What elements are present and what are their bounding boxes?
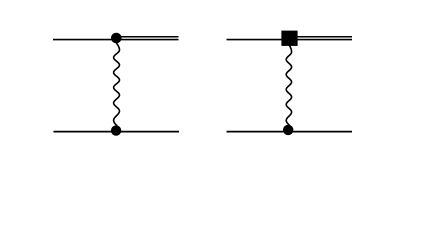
photon propagator: left diagram wavy line <box>114 43 120 126</box>
wire: right diagram, upper line of double (heavy-quark) line from vertex to right end <box>290 36 353 38</box>
wire: left diagram, top fermion line (single, continues as lower of double line) <box>53 39 179 41</box>
vertex dot: right diagram, bottom vertex (filled circle) <box>283 125 293 135</box>
vertex dot: left diagram, bottom vertex (filled circle) <box>111 125 121 135</box>
wire: left diagram, upper line of double (heavy-quark) line from vertex to right end <box>116 36 179 38</box>
photon propagator: right diagram wavy line <box>286 45 291 126</box>
vertex: right diagram, top vertex (filled square / effective operator insertion) <box>281 31 297 46</box>
wire: left diagram, bottom fermion line <box>54 131 180 133</box>
wire: right diagram, top fermion line (single, continues as lower of double line) <box>227 39 353 41</box>
vertex dot: left diagram, top vertex (filled circle) <box>111 33 122 44</box>
wire: right diagram, bottom fermion line <box>227 131 353 133</box>
